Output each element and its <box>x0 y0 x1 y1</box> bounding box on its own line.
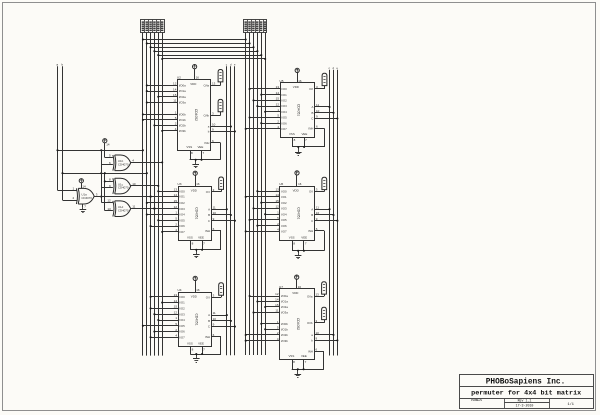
wire right bus line R4 <box>257 33 259 356</box>
svg-text:I/O0b: I/O0b <box>281 322 288 326</box>
wire U5 pin 3 O/I to connector <box>315 85 325 89</box>
svg-text:CD4052: CD4052 <box>296 318 300 330</box>
svg-text:B: B <box>208 319 210 323</box>
wires U5 I/O pins to data bus <box>245 88 280 130</box>
net e right control line <box>336 66 338 356</box>
svg-text:I/O3: I/O3 <box>281 104 287 108</box>
wire U5 INH pin 6 loop to VSS <box>292 125 324 148</box>
svg-text:CD4051: CD4051 <box>297 104 301 116</box>
wire U7 address a pin 10 to control line <box>315 331 335 336</box>
wire crossover row 2 (L2 to R2) <box>146 42 251 44</box>
svg-text:VSS: VSS <box>289 354 295 358</box>
wire crossover row 5 (L5 to R5) <box>157 54 262 56</box>
wire right bus line R2 <box>249 33 251 356</box>
wire U7 pin 16 VDD stem <box>297 279 302 289</box>
svg-text:A: A <box>208 313 210 317</box>
svg-text:11: 11 <box>213 205 216 209</box>
svg-text:INH: INH <box>308 349 313 353</box>
svg-text:C: C <box>311 219 313 223</box>
svg-text:13: 13 <box>107 207 111 211</box>
wire U5 VSS pin 8 and VEE pin 7 stubs <box>293 137 308 148</box>
wire U7 address b pin 9 to control line <box>315 337 339 342</box>
wire U4 address A pin 11 to control line <box>212 311 228 316</box>
wire U6 address C pin 9 to control line <box>315 217 339 222</box>
power symbol VDD above U4 <box>193 276 197 280</box>
connector output pin for U7 O/Ib <box>322 307 327 319</box>
svg-text:14: 14 <box>173 87 177 91</box>
svg-text:I/O5: I/O5 <box>281 116 287 120</box>
svg-text:12: 12 <box>275 292 279 296</box>
svg-text:16: 16 <box>298 182 302 186</box>
wires U2 I/O bank A pins to data bus <box>146 84 178 103</box>
wire left bus line L4 <box>154 33 156 356</box>
svg-text:CD4051: CD4051 <box>296 207 300 219</box>
svg-text:CD4052: CD4052 <box>194 109 198 121</box>
wire U5 pin 16 VDD stem <box>298 73 302 84</box>
power symbol VDD above U2 <box>193 65 197 69</box>
wires U6 I/O pins to data bus <box>245 190 280 232</box>
svg-text:I/O2b: I/O2b <box>281 333 288 337</box>
svg-text:I/O5: I/O5 <box>179 324 185 328</box>
ground symbol below U2 <box>192 162 199 167</box>
analog mux IC U7 CD4052 <box>275 285 314 360</box>
svg-text:13: 13 <box>316 292 320 296</box>
svg-text:17-3-2010: 17-3-2010 <box>516 404 534 408</box>
wire U3 address C pin 9 to control line <box>212 217 236 222</box>
wire U3 VSS pin 8 and VEE pin 7 stubs <box>191 240 206 250</box>
wire right bus line R3 <box>253 33 255 356</box>
svg-text:INH: INH <box>204 141 209 145</box>
svg-text:B: B <box>311 213 313 217</box>
svg-text:I/O3b: I/O3b <box>281 339 288 343</box>
XOR gate U1d CD4070 <box>107 199 135 217</box>
wire U6 address A pin 11 to control line <box>315 205 331 210</box>
wire right bus line R1 <box>245 33 247 356</box>
svg-text:I/O3: I/O3 <box>179 312 185 316</box>
svg-text:I/O6: I/O6 <box>281 121 287 125</box>
svg-text:I/O0a: I/O0a <box>179 84 186 88</box>
wires U7 I/O bank B pins to data bus <box>245 323 280 342</box>
svg-text:I/O4: I/O4 <box>281 110 287 114</box>
ground symbol below U5 <box>295 150 302 156</box>
svg-text:11: 11 <box>316 205 319 209</box>
svg-text:12: 12 <box>174 310 178 314</box>
connector output pin for U4 O/I <box>219 283 224 295</box>
analog mux IC U6 CD4051 <box>275 182 314 241</box>
wire U5 ground stem <box>297 146 299 150</box>
svg-text:A: A <box>311 105 313 109</box>
svg-text:VDD: VDD <box>292 291 298 295</box>
svg-text:CD4051: CD4051 <box>195 313 199 325</box>
svg-text:I/O0: I/O0 <box>281 189 287 193</box>
svg-text:10: 10 <box>213 211 217 215</box>
wire left bus line L3 <box>150 33 152 356</box>
svg-text:VSS: VSS <box>289 132 295 136</box>
connector J2 input header (6-pin) <box>244 20 267 33</box>
svg-text:I/O2: I/O2 <box>179 307 185 311</box>
svg-text:permuter for 4x4 bit matrix: permuter for 4x4 bit matrix <box>471 389 581 397</box>
svg-text:VEE: VEE <box>301 235 307 239</box>
svg-text:CD4070: CD4070 <box>81 196 92 200</box>
svg-text:I/O4: I/O4 <box>281 212 287 216</box>
wire U3 INH pin 6 loop to VSS <box>190 227 221 250</box>
svg-text:VSS: VSS <box>186 145 192 149</box>
svg-text:I/O0b: I/O0b <box>179 113 186 117</box>
connector output pin for U6 O/I <box>322 177 327 189</box>
svg-text:VDD: VDD <box>190 82 196 86</box>
XOR gate U1b CD4070 <box>109 154 134 171</box>
svg-text:O/I: O/I <box>206 295 210 299</box>
svg-text:U6: U6 <box>279 182 283 186</box>
wire U2 INH pin 6 loop to VSS <box>190 139 221 160</box>
svg-text:10: 10 <box>213 317 217 321</box>
svg-text:PHOBoS: PHOBoS <box>471 399 482 402</box>
svg-text:U4: U4 <box>178 288 182 292</box>
wire U6 pin 3 O/I to connector <box>315 188 325 192</box>
net d right control line <box>333 66 335 356</box>
wire U3 ground stem <box>195 249 197 253</box>
svg-text:U2: U2 <box>177 76 181 80</box>
net a vertical wire from label <box>56 62 76 190</box>
svg-text:13: 13 <box>275 187 279 191</box>
svg-text:C: C <box>311 117 313 121</box>
wire U6 INH pin 6 loop to VSS <box>292 227 325 251</box>
svg-text:INH: INH <box>205 229 210 233</box>
svg-text:VSS: VSS <box>187 235 193 239</box>
analog mux IC U4 CD4051 <box>174 288 212 346</box>
svg-text:CD4051: CD4051 <box>195 207 199 219</box>
svg-text:C: C <box>208 325 210 329</box>
connector output pin for U2 O/Ib <box>218 99 223 111</box>
wire vertical node V1 feeding U1b.6 U1c.9 U1d.12 <box>100 150 113 202</box>
wire U4 address C pin 9 to control line <box>212 323 236 328</box>
svg-text:11: 11 <box>132 205 135 209</box>
svg-text:16: 16 <box>196 182 200 186</box>
net c right control line <box>329 66 331 356</box>
title block <box>460 375 594 409</box>
svg-text:VEE: VEE <box>198 235 204 239</box>
svg-text:VDD: VDD <box>191 188 197 192</box>
svg-text:I/O7: I/O7 <box>281 230 287 234</box>
svg-text:A: A <box>311 207 313 211</box>
svg-text:CD4070: CD4070 <box>118 186 129 190</box>
wire U5 address B pin 10 to control line <box>315 109 335 114</box>
wire U5 address A pin 11 to control line <box>315 103 331 108</box>
wires U7 I/O bank A pins to data bus <box>249 295 280 314</box>
wire right bus line R5 <box>261 33 263 356</box>
svg-text:12: 12 <box>276 102 280 106</box>
wire U2 address a pin 10 to control line <box>211 123 232 128</box>
wire U3 address A pin 11 to control line <box>212 205 228 210</box>
wire crossover row 1 (L1 to R1) <box>142 38 247 40</box>
svg-text:CD4070: CD4070 <box>118 162 129 166</box>
svg-text:I/O3b: I/O3b <box>179 129 186 133</box>
net d left control line <box>230 62 232 355</box>
analog mux IC U3 CD4051 <box>174 182 212 241</box>
svg-text:I/O1: I/O1 <box>179 301 185 305</box>
svg-text:I/O1b: I/O1b <box>281 327 288 331</box>
wire right bus line R6 <box>265 33 267 356</box>
svg-text:14: 14 <box>82 185 86 189</box>
wire U6 VSS pin 8 and VEE pin 7 stubs <box>293 240 307 251</box>
ground symbol below U3 <box>193 252 200 257</box>
svg-text:I/O2a: I/O2a <box>281 305 288 309</box>
svg-text:12: 12 <box>107 199 111 203</box>
svg-text:I/O1: I/O1 <box>179 195 185 199</box>
svg-text:13: 13 <box>212 82 216 86</box>
power symbol VDD above U6 <box>295 171 299 175</box>
wire left bus line L1 <box>142 33 144 356</box>
net c left control line <box>226 62 228 355</box>
svg-text:VEE: VEE <box>198 342 204 346</box>
svg-text:I/O7: I/O7 <box>179 335 185 339</box>
connector output pin for U3 O/I <box>219 177 224 189</box>
wires U3 I/O pins to data bus <box>146 190 178 233</box>
svg-text:I/O1a: I/O1a <box>281 300 288 304</box>
connector output pin for U7 O/Ia <box>322 282 327 294</box>
wire crossover row 4 (L4 to R4) <box>153 50 258 52</box>
svg-text:O/Ib: O/Ib <box>204 114 210 118</box>
wire U2 pin 13 O/Ia to connector <box>211 82 221 86</box>
connector output pin for U2 O/Ia <box>218 70 223 82</box>
wire U1c output 10 to bus line L5 <box>131 185 160 187</box>
svg-text:I/O6: I/O6 <box>179 330 185 334</box>
svg-text:I/O1a: I/O1a <box>179 89 186 93</box>
svg-text:U5: U5 <box>280 79 284 83</box>
svg-text:I/O6: I/O6 <box>281 224 287 228</box>
svg-text:O/Ia: O/Ia <box>307 294 313 298</box>
connector J1 input header (6-pin) <box>141 20 165 33</box>
svg-text:VDD: VDD <box>293 188 299 192</box>
svg-text:I/O2b: I/O2b <box>179 124 186 128</box>
wires U4 I/O pins to data bus <box>142 296 178 339</box>
svg-text:VDD: VDD <box>293 85 299 89</box>
ground symbol below U1a <box>80 207 87 212</box>
svg-text:I/O0a: I/O0a <box>281 294 288 298</box>
svg-text:I/O3a: I/O3a <box>281 311 288 315</box>
svg-text:VDD: VDD <box>191 295 197 299</box>
svg-text:I/O0: I/O0 <box>179 189 185 193</box>
svg-text:I/O3: I/O3 <box>179 207 185 211</box>
svg-text:I/O3: I/O3 <box>281 207 287 211</box>
wire U2 VSS pin 8 and VEE pin 7 stubs <box>191 150 205 161</box>
wire U4 ground stem <box>195 353 197 357</box>
connector output pin for U5 O/I <box>322 73 327 85</box>
svg-text:O/Ib: O/Ib <box>307 321 313 325</box>
wire U1d output 11 to bus line L4 <box>131 207 156 209</box>
svg-text:10: 10 <box>212 123 216 127</box>
XOR gate U1a CD4070 <box>73 187 98 205</box>
wire U7 INH pin 6 loop to VSS <box>292 347 324 369</box>
wire U5 address C pin 9 to control line <box>315 115 338 120</box>
svg-text:I/O4: I/O4 <box>179 318 185 322</box>
XOR gate U1c CD4070 <box>109 178 136 194</box>
svg-text:VEE: VEE <box>198 145 204 149</box>
svg-text:I/O3a: I/O3a <box>179 101 186 105</box>
svg-text:10: 10 <box>316 331 320 335</box>
analog mux IC U5 CD4051 <box>276 79 315 138</box>
svg-text:I/O2a: I/O2a <box>179 95 186 99</box>
svg-text:1/1: 1/1 <box>567 402 573 407</box>
wire U4 pin 3 O/I to connector <box>212 293 222 297</box>
power symbol VDD above U3 <box>193 171 197 175</box>
wire U2 pin 3 O/Ib to connector <box>211 112 221 116</box>
ground symbol below U6 <box>295 253 302 258</box>
svg-text:VSS: VSS <box>289 235 295 239</box>
wire U7 VSS pin 8 and VEE pin 7 stubs <box>293 359 307 370</box>
wire U2 ground stem <box>195 159 197 163</box>
wire U3 pin 16 VDD stem <box>196 175 200 186</box>
wire net b branch to bus line L2 and U1c pin 8 <box>61 172 147 181</box>
wires U2 I/O bank B pins to data bus <box>142 113 178 132</box>
svg-text:U3: U3 <box>178 182 182 186</box>
svg-text:O/I: O/I <box>206 190 210 194</box>
svg-text:CD4070: CD4070 <box>118 208 129 212</box>
wire U3 address B pin 10 to control line <box>212 211 232 216</box>
svg-text:I/O4: I/O4 <box>179 213 185 217</box>
svg-text:I/O2: I/O2 <box>179 201 185 205</box>
net b vertical wire from label <box>62 62 77 200</box>
wire left bus line L6 <box>162 33 164 356</box>
svg-text:Rev 1.1: Rev 1.1 <box>518 398 532 402</box>
power symbol VDD for U1 pin 14 <box>79 179 83 183</box>
svg-text:VSS: VSS <box>187 342 193 346</box>
wire U7 pin 13 O/Ia to connector <box>315 292 325 296</box>
svg-text:I/O5: I/O5 <box>179 218 185 222</box>
svg-text:INH: INH <box>308 127 313 131</box>
wire U6 ground stem <box>297 250 299 254</box>
wire left bus line L5 <box>158 33 160 356</box>
wire U4 address B pin 10 to control line <box>212 317 232 322</box>
svg-text:PHOBoSapiens Inc.: PHOBoSapiens Inc. <box>486 378 566 386</box>
wire U1a pin 7 stem <box>83 204 87 208</box>
svg-text:VEE: VEE <box>302 132 308 136</box>
svg-text:11: 11 <box>213 311 216 315</box>
ground symbol below U4 <box>193 357 200 363</box>
wire U2 pin 16 VDD stem <box>195 69 200 80</box>
wire U3 pin 3 O/I to connector <box>212 188 222 192</box>
svg-text:I/O2: I/O2 <box>281 201 287 205</box>
wire U6 pin 16 VDD stem <box>297 175 302 186</box>
svg-text:INH: INH <box>308 229 313 233</box>
wire U4 VSS pin 8 and VEE pin 7 stubs <box>191 347 206 355</box>
svg-text:10: 10 <box>316 211 320 215</box>
wire left bus line L2 <box>146 33 148 356</box>
svg-text:I/O7: I/O7 <box>281 127 287 131</box>
wire crossover row 3 (L3 to R3) <box>150 46 255 48</box>
wire net a branch to bus line L1 and U1b pin 5 <box>56 149 144 151</box>
svg-text:11: 11 <box>316 103 319 107</box>
svg-text:I/O7: I/O7 <box>179 230 185 234</box>
svg-text:B: B <box>311 111 313 115</box>
wire vertical node V2 feeding U1d.13 <box>104 180 113 210</box>
svg-text:C: C <box>208 219 210 223</box>
svg-text:O/I: O/I <box>309 87 313 91</box>
svg-text:O/Ia: O/Ia <box>204 84 210 88</box>
power symbol VDD at U1b pin 14 <box>103 139 107 143</box>
svg-text:I/O1b: I/O1b <box>179 118 186 122</box>
wire U4 INH pin 6 loop to VSS <box>190 333 221 355</box>
wire U4 pin 16 VDD stem <box>196 281 200 293</box>
net e left control line <box>234 62 236 355</box>
svg-text:16: 16 <box>196 288 200 292</box>
wire U1a pin 14 stem <box>82 183 87 189</box>
svg-text:I/O6: I/O6 <box>179 224 185 228</box>
svg-text:I/O0: I/O0 <box>179 295 185 299</box>
svg-text:10: 10 <box>316 109 320 113</box>
wire U7 ground stem <box>297 368 299 372</box>
svg-text:INH: INH <box>205 335 210 339</box>
power symbol VDD above U7 <box>295 275 299 279</box>
svg-text:I/O2: I/O2 <box>281 99 287 103</box>
svg-text:I/O0: I/O0 <box>281 87 287 91</box>
svg-text:I/O5: I/O5 <box>281 218 287 222</box>
wire U1b pin 5 feed from power stem <box>105 143 113 158</box>
svg-text:14: 14 <box>106 143 110 147</box>
svg-text:B: B <box>208 213 210 217</box>
svg-text:VEE: VEE <box>301 354 307 358</box>
wire U1a output node to bus line L3 and U3 pin 14 row <box>94 196 178 198</box>
analog mux IC U2 CD4052 <box>173 76 210 151</box>
wire U2 address b pin 9 to control line <box>211 128 236 133</box>
svg-text:U7: U7 <box>279 285 283 289</box>
wire U6 address B pin 10 to control line <box>315 211 335 216</box>
wire crossover row 6 (L6 to R6) <box>161 58 266 60</box>
svg-text:I/O1: I/O1 <box>281 93 287 97</box>
svg-text:O/I: O/I <box>309 190 313 194</box>
wire U7 pin 3 O/Ib to connector <box>315 319 325 323</box>
svg-text:13: 13 <box>174 188 178 192</box>
wire U1b output 4 to bus line L6 <box>131 161 164 163</box>
svg-text:I/O1: I/O1 <box>281 195 287 199</box>
svg-text:A: A <box>208 207 210 211</box>
ground symbol below U7 <box>295 372 302 378</box>
power symbol VDD above U5 <box>295 68 299 72</box>
